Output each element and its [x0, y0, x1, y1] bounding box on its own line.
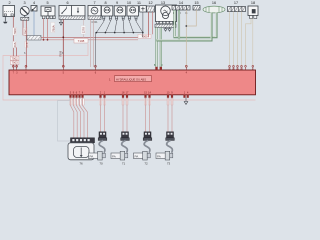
wire: component18 left pin to ECU [246, 19, 252, 67]
shield bus of wheel sensors [95, 32, 142, 34]
svg-text:72: 72 [144, 161, 148, 165]
svg-text:796A: 796A [51, 25, 55, 32]
wire: component3 second pin to ECU [25, 20, 27, 67]
sensor wire labels below ECU [100, 99, 174, 106]
wire: component11 to bus corner [142, 12, 144, 33]
cluster wire labels below ECU [70, 99, 84, 106]
ground (component 2) [3, 22, 7, 24]
svg-text:14: 14 [179, 1, 183, 5]
wire: component6 ground pin [60, 19, 62, 22]
component 2 (control unit) [3, 6, 15, 17]
top pin marks on ECU [12, 65, 187, 67]
wheel speed sensor 2 [111, 132, 129, 160]
svg-text:4: 4 [33, 1, 35, 5]
component 5 (switch module) [41, 6, 55, 16]
svg-text:11: 11 [137, 1, 141, 5]
wires: ECU to pump connector [71, 98, 74, 138]
wire: component14 K pin tan wire to ECU [185, 10, 187, 67]
ground arrow below ECU [184, 102, 188, 105]
green harness: component13 to ECU [157, 27, 161, 68]
component 8 (wheel sensor box) [101, 6, 112, 19]
wheel speed sensor 1 [89, 132, 107, 160]
ECU block (calculateur ABS) [9, 70, 256, 95]
node dots on lower bus [43, 39, 45, 41]
wire: red horizontal bus lower [41, 39, 138, 41]
wire: component6 red vertical to ECU [62, 19, 64, 67]
svg-text:7: 7 [93, 1, 95, 5]
svg-text:2: 2 [8, 1, 10, 5]
svg-text:1278: 1278 [81, 27, 85, 34]
wire: shield bus right end corner [142, 33, 144, 38]
pump assembly body [68, 143, 94, 160]
wire: component12 pins down [148, 12, 150, 37]
svg-text:18: 18 [251, 1, 255, 5]
component 10 (wheel sensor box) [127, 6, 139, 19]
wire: component4 blue wire [33, 11, 35, 36]
wire: ECU bottom ground stub [185, 98, 187, 102]
component 15 (small box) [193, 6, 200, 11]
connector pins under component 5 [42, 16, 55, 19]
bottom pin labels cluster [70, 92, 84, 95]
wire: pale loop wire to pump left [58, 98, 71, 141]
svg-text:7903: 7903 [11, 61, 18, 65]
component 17 (hatched connector row) [228, 7, 246, 12]
ground arrow (component 6) [59, 22, 62, 25]
svg-text:7000: 7000 [141, 35, 148, 39]
wires: sensor 9 pins w/ arrows to bus [115, 21, 124, 32]
svg-text:9: 9 [116, 1, 118, 5]
wires: sensor 10 pins w/ arrows to bus [129, 21, 142, 32]
ground arrow (component13 pin b) [168, 29, 171, 32]
green harness: component14 L/M to oval 16 [157, 10, 217, 40]
component 7 (pump motor) [88, 6, 101, 17]
svg-text:6: 6 [66, 1, 68, 5]
component 14 (flat connector) [172, 6, 190, 11]
pin numbers inside top edge [13, 72, 188, 75]
hatched connector strip under component 13 [155, 22, 176, 28]
wheel speed sensor 3 [134, 132, 152, 160]
wires: sensor 8 pins w/ arrows to bus [96, 19, 110, 33]
wire: component2 ground pin [4, 17, 6, 22]
svg-text:16: 16 [212, 1, 216, 5]
wire: main red horizontal bus upper [41, 36, 149, 38]
wire: component7 pale wires to ECU [90, 19, 92, 67]
wires: component17 tan wires to ECU [229, 12, 231, 67]
inline connector C001 [27, 36, 41, 41]
svg-text:3: 3 [23, 1, 25, 5]
component 12 (hatched connector) [147, 6, 155, 12]
svg-text:66A: 66A [13, 42, 17, 47]
svg-text:10: 10 [127, 1, 131, 5]
wire: component13 ground pins [166, 27, 170, 28]
component 4 (small relay box) [31, 6, 37, 12]
wire: component5 pins down to lower bus [43, 19, 45, 40]
wire label 66B rotated lower (comp3 wire) [25, 41, 29, 47]
ECU label box [115, 76, 152, 82]
svg-text:C001: C001 [91, 20, 98, 24]
wire label box right end [138, 34, 151, 38]
wires: ECU to sensor 3 [146, 98, 150, 133]
svg-text:71: 71 [122, 161, 126, 165]
svg-text:17: 17 [234, 1, 238, 5]
svg-text:8: 8 [104, 1, 106, 5]
component 18 (diagnostic socket) [248, 6, 258, 19]
component 6 (double switch box) [59, 6, 85, 17]
component 16 (grommet oval) [203, 6, 225, 13]
ground arrow (component13 pin a) [164, 29, 167, 32]
wire label boxes 7902/7903 [10, 56, 19, 60]
wire label 66A rotated lower (left wire) [13, 41, 17, 47]
wire label rotated on comp5 wire [51, 22, 55, 32]
svg-text:7108: 7108 [78, 39, 85, 43]
bottom pin pairs for wheel sensors [99, 95, 188, 98]
svg-text:73: 73 [167, 161, 171, 165]
hatched connector strip under component 7 [88, 16, 101, 19]
wire: component15 to K wire [186, 10, 196, 26]
top pin number labels [228, 67, 254, 71]
node junction on upper bus [62, 36, 64, 38]
svg-text:12: 12 [148, 1, 152, 5]
svg-text:15: 15 [194, 1, 198, 5]
top pin rings right side [229, 65, 254, 67]
wire label 7908 rotated [58, 50, 62, 57]
pump assembly connector [71, 138, 95, 143]
bottom pin marks cluster (pump harness) [69, 95, 83, 98]
svg-text:76: 76 [79, 161, 83, 165]
svg-text:796C: 796C [13, 28, 17, 35]
wire label rotated on comp6 wire [81, 26, 86, 35]
wire label 796C (rotated) [13, 28, 17, 36]
svg-text:13: 13 [161, 1, 165, 5]
svg-text:70: 70 [99, 161, 103, 165]
component 13 (hydraulic pump unit) [156, 5, 177, 22]
hatched connector strip under component 6 [59, 16, 85, 20]
outer dashed zone outline around ECU [3, 44, 256, 100]
wire label box 7108 [74, 38, 88, 43]
wire: component18 right pin to ECU [252, 19, 254, 67]
wheel speed sensor 4 [156, 132, 174, 160]
svg-text:7961: 7961 [24, 28, 28, 35]
component 9 (wheel sensor box) [114, 6, 126, 19]
wire: component6 right pin pale wire [83, 19, 85, 37]
wire: component3 down to inline connector [23, 20, 27, 36]
svg-text:66B: 66B [25, 42, 29, 47]
wire: second wire to ECU pin [16, 47, 18, 67]
node on K wire [185, 25, 187, 27]
component 11 (small box) [140, 6, 147, 13]
svg-text:5: 5 [46, 1, 48, 5]
wire: component2 to ECU pin (dark red) [12, 17, 14, 68]
wire label 7961 (rotated) [23, 28, 27, 36]
component 3 (sensor with slash) [20, 7, 29, 18]
wires: ECU to sensor 4 [168, 98, 172, 133]
wire: shield bus drop to ECU [94, 33, 96, 67]
connector strip under component 3 [21, 17, 29, 20]
wires: ECU to sensor 2 [123, 98, 127, 133]
wires: ECU to sensor 1 [101, 98, 105, 133]
svg-text:HYDRAULIQUE OU ABS: HYDRAULIQUE OU ABS [116, 77, 146, 81]
